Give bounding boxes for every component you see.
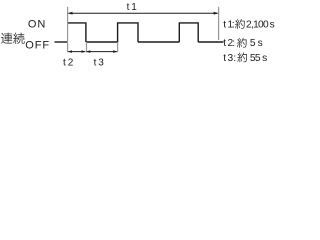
wire pulse2 (118, 23, 138, 42)
wire OFF segment long (138, 41, 179, 43)
svg-text:t: t (223, 53, 226, 64)
svg-text:1: 1 (131, 2, 137, 13)
svg-text:t: t (223, 19, 226, 30)
extension line right dimension (t1 end) (218, 7, 220, 40)
svg-text:2,100: 2,100 (246, 19, 269, 30)
dimension arrow t2 (68, 51, 85, 53)
svg-text:ON: ON (28, 19, 46, 31)
extension stub pulse1 falling edge (86, 42, 88, 52)
svg-text:5: 5 (250, 38, 256, 49)
extension stub pulse2 rising edge (117, 42, 119, 52)
svg-text:2: 2 (68, 58, 74, 69)
svg-text:3: 3 (98, 58, 104, 69)
wire pulse3 (179, 23, 198, 42)
svg-text:t: t (63, 58, 66, 69)
label 連続 (kanji paths) (1, 33, 25, 44)
svg-text:s: s (258, 38, 263, 49)
svg-text:55: 55 (250, 53, 261, 64)
dimension arrow t3 (87, 51, 118, 53)
svg-text:s: s (270, 19, 275, 30)
wire OFF tail (198, 41, 223, 43)
svg-text::: : (233, 53, 236, 64)
extension line left dimension (t1/t2 origin) (67, 7, 69, 53)
svg-text::: : (232, 19, 235, 30)
svg-text:s: s (262, 53, 267, 64)
svg-text:t: t (94, 58, 97, 69)
svg-text:OFF: OFF (25, 39, 50, 51)
wire OFF lead-in (55, 41, 68, 43)
svg-text:t: t (223, 38, 226, 49)
svg-text::: : (232, 38, 235, 49)
wire pulse1 ON top (68, 23, 86, 42)
dimension arrow t1 (68, 12, 217, 14)
wire OFF segment t3 (86, 41, 118, 43)
svg-text:t: t (127, 2, 130, 13)
